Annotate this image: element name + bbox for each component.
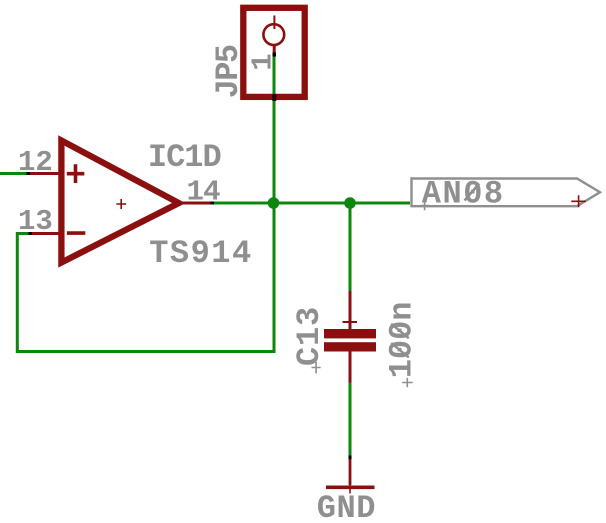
value 100n rotated with slashed zeros	[383, 301, 420, 378]
pin stub 14 output	[182, 202, 212, 205]
net flag gray origin cross	[420, 201, 429, 210]
connector JP5 body	[243, 8, 304, 97]
svg-text:100n: 100n	[383, 301, 420, 378]
svg-text:IC1D: IC1D	[148, 139, 221, 176]
gnd origin cross	[349, 485, 351, 494]
JP5 pin direction line	[273, 16, 275, 30]
capacitor C13 top lead	[349, 291, 352, 330]
gnd bar	[326, 486, 375, 490]
capacitor C13 top plate	[324, 329, 376, 338]
svg-text:JP5: JP5	[210, 45, 247, 98]
capacitor C13 origin cross	[343, 321, 358, 323]
op-amp plus input marker	[67, 164, 85, 183]
junction node B	[344, 197, 356, 209]
svg-text:12: 12	[18, 146, 53, 179]
svg-text:AN08: AN08	[422, 175, 505, 212]
wire node to capacitor	[349, 203, 352, 292]
junction node A	[268, 197, 280, 209]
svg-text:C13: C13	[291, 306, 328, 366]
svg-text:1: 1	[247, 53, 280, 70]
wire capacitor to gnd	[349, 382, 352, 459]
svg-text:13: 13	[18, 205, 53, 238]
pin stub 13	[30, 232, 62, 235]
junction dark dot pin13	[29, 232, 33, 235]
svg-text:TS914: TS914	[149, 235, 253, 272]
net flag AN08 outline	[412, 179, 601, 207]
svg-text:14: 14	[187, 176, 221, 209]
JP5 pin stub	[273, 45, 276, 55]
gnd transition dark dot	[349, 456, 352, 460]
op-amp origin cross	[116, 199, 126, 209]
junction dark dot JP5	[273, 53, 277, 57]
wire output net to flag	[212, 202, 410, 205]
net flag red origin cross	[571, 195, 586, 207]
op-amp IC1D triangle	[61, 141, 178, 263]
gnd lead	[349, 459, 352, 485]
wire JP5 down to node	[273, 54, 276, 203]
label C13 origin cross	[312, 362, 321, 374]
JP5 pin 1 circle	[263, 24, 284, 45]
op-amp minus input marker	[67, 231, 85, 235]
wire pin 12 input	[0, 172, 29, 175]
wire crossing JP5 border dark overlap	[272, 94, 276, 101]
junction dark dot output	[211, 202, 215, 205]
pin stub 12	[28, 172, 61, 175]
net flag zero slash	[465, 184, 480, 201]
svg-text:GND: GND	[317, 490, 376, 523]
capacitor C13 bottom lead	[349, 351, 352, 383]
capacitor C13 bottom plate	[324, 342, 376, 351]
junction dark dot pin12	[27, 172, 31, 175]
wire pin 13 feedback loop	[17, 203, 274, 352]
value 100n origin cross	[402, 378, 413, 387]
